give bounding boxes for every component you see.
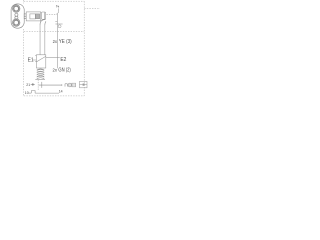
- svg-text:2x: 2x: [53, 68, 58, 73]
- svg-text:GN (2): GN (2): [58, 68, 71, 74]
- svg-text:21: 21: [26, 83, 30, 87]
- svg-text:E1: E1: [28, 58, 34, 64]
- svg-text:10: 10: [25, 91, 29, 95]
- svg-text:E2: E2: [60, 57, 66, 63]
- svg-text:⅜: ⅜: [56, 4, 60, 9]
- svg-text:YE (3): YE (3): [59, 39, 72, 45]
- svg-text:14: 14: [59, 89, 63, 93]
